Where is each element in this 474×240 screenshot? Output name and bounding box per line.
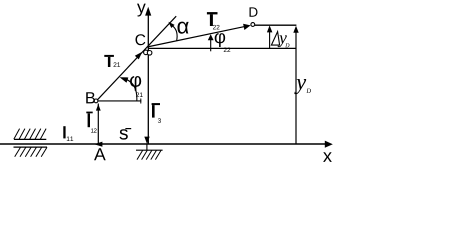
left guide hatching upper strokes bbox=[14, 129, 46, 140]
vector label s bbox=[120, 129, 132, 140]
dimension label yD bbox=[294, 79, 311, 94]
origin support ledge bbox=[136, 149, 163, 151]
vector arrow l12 at B bbox=[96, 104, 101, 111]
angle alpha arrow bbox=[168, 22, 174, 28]
vector label l3 bbox=[152, 103, 161, 123]
vector label l21 bbox=[104, 55, 120, 67]
horizontal reference line from C to yD line bbox=[148, 47, 296, 49]
left guide hatching lower ledge bbox=[14, 146, 48, 148]
dimension line yD bbox=[293, 26, 298, 145]
angle label phi22 bbox=[215, 33, 231, 52]
joint B bbox=[94, 99, 98, 103]
left guide hatching lower strokes bbox=[15, 147, 47, 157]
left guide hatching upper ledge bbox=[14, 138, 46, 140]
vector l3 arrow pointing down at origin bbox=[144, 137, 149, 151]
link BC line (extended beyond C) bbox=[97, 16, 177, 101]
link CD line bbox=[147, 26, 248, 47]
angle phi21 arrow bbox=[120, 77, 129, 82]
vector arrow s at A (pointing left) bbox=[94, 142, 102, 147]
origin support hatching bbox=[137, 150, 161, 159]
y-axis bbox=[137, 4, 151, 144]
horizontal reference line at B bbox=[97, 100, 142, 102]
dimension label delta-yD bbox=[271, 32, 289, 48]
x-axis bbox=[0, 141, 333, 162]
vector label l22 bbox=[207, 12, 220, 29]
vector label l11 bbox=[63, 126, 73, 141]
joint C (double) bbox=[144, 50, 152, 55]
dimension arrow delta-yD bbox=[267, 25, 273, 48]
node label B bbox=[86, 92, 95, 103]
vector label l12 bbox=[86, 112, 96, 133]
vector arrow l22 at D bbox=[243, 24, 251, 30]
angle alpha arc bbox=[173, 26, 177, 41]
angle phi22 arrow bbox=[208, 34, 214, 40]
joint D bbox=[251, 23, 255, 27]
angle phi21 arc bbox=[127, 80, 137, 101]
angle label phi21 bbox=[130, 76, 143, 97]
node label A bbox=[94, 148, 106, 160]
tick at end of reference line bbox=[140, 99, 142, 104]
top horizontal line from D bbox=[255, 24, 297, 26]
node label C bbox=[135, 34, 145, 45]
vector arrow l21 at C bbox=[135, 52, 143, 60]
angle phi22 indicator line bbox=[210, 40, 212, 52]
vector l12 line from A to B bbox=[97, 104, 99, 145]
node label D bbox=[250, 7, 258, 16]
angle label alpha bbox=[178, 22, 189, 34]
